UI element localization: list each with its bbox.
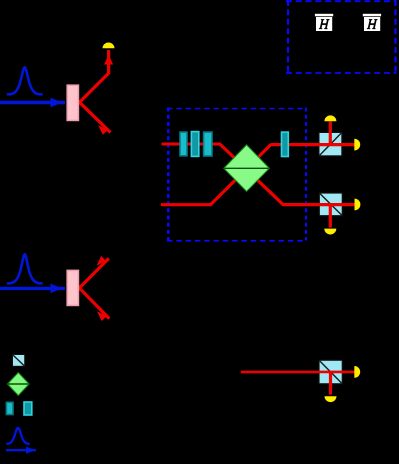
pump arrow 1 [0, 98, 65, 108]
beam splitter BS (green diamond) [224, 145, 269, 191]
legend: beam splitter symbol [8, 373, 30, 396]
nonlinear crystal X1 [67, 85, 78, 120]
PBS cube PBS2 (lower right analyzer) [319, 193, 342, 216]
beam: diagonal upper-left to lower-right through BS [220, 144, 284, 205]
beam: long horizontal into PBS3 [241, 371, 355, 374]
beam: diagonal lower-left to upper-right through BS [210, 144, 271, 205]
dashed box: state-preparation stage (top right) [286, 0, 397, 73]
state label Hbar 1 [315, 14, 333, 31]
legend: pulse symbol [6, 428, 29, 444]
legend: wave plate symbol A [6, 402, 13, 414]
pump pulse 1 (blue wavepacket) [7, 67, 43, 94]
arrowhead on idler beam X1 [98, 125, 108, 135]
beam: upper output to PBS1 and detector D3 [271, 143, 355, 146]
wave plate WP3 [204, 132, 212, 156]
state label Hbar 2 [363, 14, 381, 31]
nonlinear crystal X2 [67, 270, 78, 305]
detector D6 (right of PBS3) [354, 366, 360, 378]
legend: propagation arrow [6, 447, 36, 454]
beam: idler from crystal X2 down right [79, 288, 109, 319]
PBS cube PBS3 (bottom right analyzer) [319, 360, 342, 384]
beam: interferometer upper input (horizontal) [162, 142, 222, 145]
detector D2 (above PBS1) [324, 115, 336, 121]
beam: interferometer lower input (horizontal) [161, 203, 211, 206]
pump pulse 2 (blue wavepacket) [7, 254, 43, 283]
arrowhead on X2 lower beam [97, 311, 107, 321]
wave plate WP4 (phase plate in upper output arm) [282, 132, 289, 156]
beam: PBS2 reflected down to detector D4 [329, 205, 332, 228]
beam: lower output to PBS2 and detector D5 [283, 203, 355, 206]
beam: signal from crystal X2 up right [79, 258, 109, 288]
beam: PBS1 reflected up to detector D2 [329, 122, 332, 145]
wave plate WP2 [191, 132, 198, 157]
PBS cube PBS1 (upper right analyzer) [319, 132, 342, 156]
detector D1 (above crystal X1) [103, 42, 115, 48]
detector D7 (below PBS3) [325, 396, 337, 402]
detector D3 (right of PBS1) [354, 139, 360, 151]
arrowhead on X2 upper beam [97, 256, 107, 266]
legend: PBS symbol [13, 355, 25, 367]
beam: PBS3 reflected down to detector D7 [329, 372, 332, 395]
dashed box: interferometer stage (middle) [167, 108, 307, 241]
wave plate WP1 [180, 132, 187, 156]
arrowhead on beam to D1 [104, 55, 113, 65]
pump arrow 2 [0, 284, 65, 294]
detector D5 (right of PBS2) [355, 199, 361, 211]
detector D4 (below PBS2) [324, 229, 336, 235]
beam: signal from crystal X1 up to detector D1 [80, 50, 109, 102]
beam: idler from crystal X1 (down right) [80, 102, 111, 132]
legend: wave plate symbol B [24, 402, 32, 415]
